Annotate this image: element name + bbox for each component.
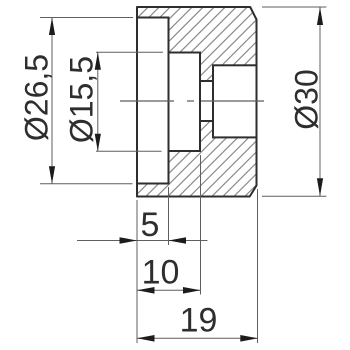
svg-text:10: 10 <box>142 254 180 292</box>
svg-text:Ø15,5: Ø15,5 <box>64 56 100 143</box>
svg-text:5: 5 <box>141 206 160 244</box>
svg-text:Ø26,5: Ø26,5 <box>19 54 55 141</box>
svg-text:19: 19 <box>180 302 218 340</box>
svg-text:Ø30: Ø30 <box>288 69 324 129</box>
